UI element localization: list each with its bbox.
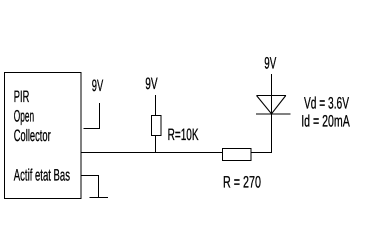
PIR module box [5, 73, 82, 199]
svg-text:Vd = 3.6V: Vd = 3.6V [304, 94, 349, 112]
wire: R1 to output bus [155, 136, 157, 153]
wire: PIR ground pin horizontal [81, 175, 99, 177]
LED cathode bar [256, 113, 291, 115]
wire: PIR ground pin vertical [98, 175, 100, 198]
LED D1 triangle left side [257, 96, 272, 114]
wire: 9V to LED anode (passes through triangle) [271, 74, 273, 114]
svg-text:R=10K: R=10K [168, 126, 199, 144]
9V supply stub bracket (PIR) : vertical [99, 103, 101, 129]
svg-text:Actif etat Bas: Actif etat Bas [14, 166, 70, 184]
wire: PIR output bus (box to R2) [81, 152, 222, 154]
svg-text:9V: 9V [145, 75, 157, 93]
LED D1 triangle top edge [257, 95, 286, 97]
svg-text:Open: Open [14, 108, 34, 126]
svg-text:9V: 9V [92, 77, 103, 95]
resistor R1 body (10K) [152, 116, 162, 136]
svg-text:Id = 20mA: Id = 20mA [301, 113, 350, 131]
svg-text:Collector: Collector [14, 127, 51, 145]
svg-text:9V: 9V [264, 55, 276, 73]
resistor R2 body (270) [223, 149, 252, 161]
LED D1 triangle right side [272, 96, 286, 114]
9V supply stub bracket (PIR) : horizontal [84, 128, 101, 130]
svg-text:PIR: PIR [14, 88, 30, 106]
wire: R2 to LED cathode corner [251, 114, 272, 153]
svg-text:R = 270: R = 270 [223, 174, 261, 192]
wire: 9V to resistor R1 [155, 95, 157, 115]
ground symbol bar [90, 197, 109, 199]
